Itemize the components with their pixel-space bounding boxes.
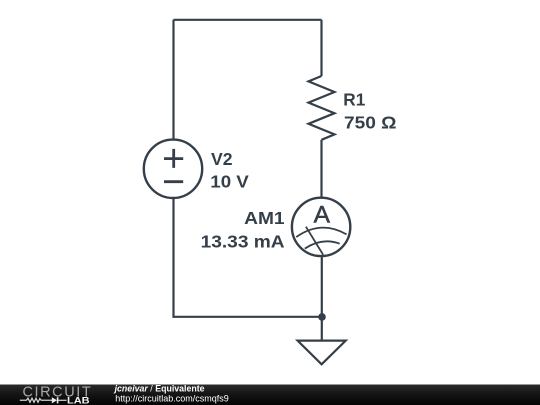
wire left vertical (top wire to V2) [172,20,174,140]
svg-text:10 V: 10 V [210,172,249,192]
voltage source V2 [144,140,202,198]
svg-text:13.33 mA: 13.33 mA [201,231,285,251]
footer author/title [114,384,205,394]
wire right vertical (top wire to R1) [320,20,322,76]
CircuitLab logo CIRCUIT [23,384,91,400]
ammeter AM1 [292,198,350,256]
label R1 [343,90,365,110]
resistor R1 [309,76,335,140]
svg-text:A: A [314,201,331,228]
footer url [115,393,229,403]
svg-text:jcneivar / Equivalente: jcneivar / Equivalente [114,384,205,394]
value 750 Ω [344,113,397,133]
wire top horizontal [174,19,322,21]
value 10 V [210,172,249,192]
junction node [318,313,326,321]
label V2 [211,149,233,169]
wire AM1 to junction [321,257,323,317]
CircuitLab logo diode [52,397,67,403]
CircuitLab logo LAB [67,395,90,405]
wire bottom horizontal [174,316,323,318]
svg-text:750 Ω: 750 Ω [344,113,397,133]
value 13.33 mA [201,231,285,251]
svg-text:R1: R1 [343,90,365,110]
wire R1 to AM1 [320,140,322,198]
svg-text:AM1: AM1 [244,208,285,228]
footer bar [0,385,540,405]
svg-text:V2: V2 [211,149,233,169]
svg-text:LAB: LAB [67,395,90,405]
ground [298,341,346,365]
wire junction to ground [321,317,323,341]
CircuitLab logo resistor zigzag [20,398,52,402]
label AM1 [244,208,285,228]
svg-text:http://circuitlab.com/csmqfs9: http://circuitlab.com/csmqfs9 [115,393,229,403]
wire left vertical (V2 to bottom wire) [172,199,174,318]
